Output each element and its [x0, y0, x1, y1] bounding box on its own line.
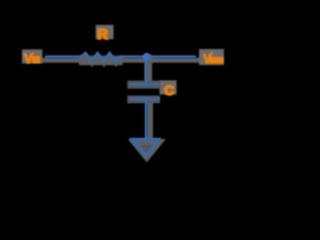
node: junction dot — [143, 53, 151, 61]
label box R — [96, 25, 114, 39]
wire: capacitor to ground — [145, 100, 148, 138]
svg-text:R: R — [97, 26, 108, 43]
label Vin — [24, 51, 40, 66]
capacitor C top plate — [129, 83, 160, 86]
wire: resistor to Vout — [120, 55, 196, 58]
label box Vin — [22, 49, 42, 63]
junction shadow — [144, 54, 154, 64]
wire shadow: main horizontal run — [41, 58, 202, 63]
wire shadow: vertical net upper — [145, 59, 153, 82]
blue circuit layer — [45, 53, 196, 155]
resistor R shadow zigzag — [82, 56, 121, 64]
svg-text:V: V — [24, 51, 33, 66]
gray shadow layer — [41, 54, 202, 158]
resistor R shadow band — [79, 56, 123, 66]
ground shadow triangle — [134, 142, 161, 158]
wire: Vin to resistor — [45, 55, 81, 58]
svg-text:C: C — [164, 83, 174, 98]
label box C — [160, 80, 177, 94]
capacitor C bottom plate — [129, 97, 160, 100]
wire: junction down to capacitor — [145, 57, 148, 83]
label Vout — [203, 52, 223, 66]
capacitor C shadow plate top — [127, 81, 160, 89]
label box Vout — [199, 49, 224, 65]
wire shadow: vertical net lower — [147, 101, 153, 140]
resistor R zigzag — [81, 53, 120, 61]
ground symbol triangle — [132, 139, 159, 155]
capacitor C shadow plate bottom — [127, 96, 160, 104]
